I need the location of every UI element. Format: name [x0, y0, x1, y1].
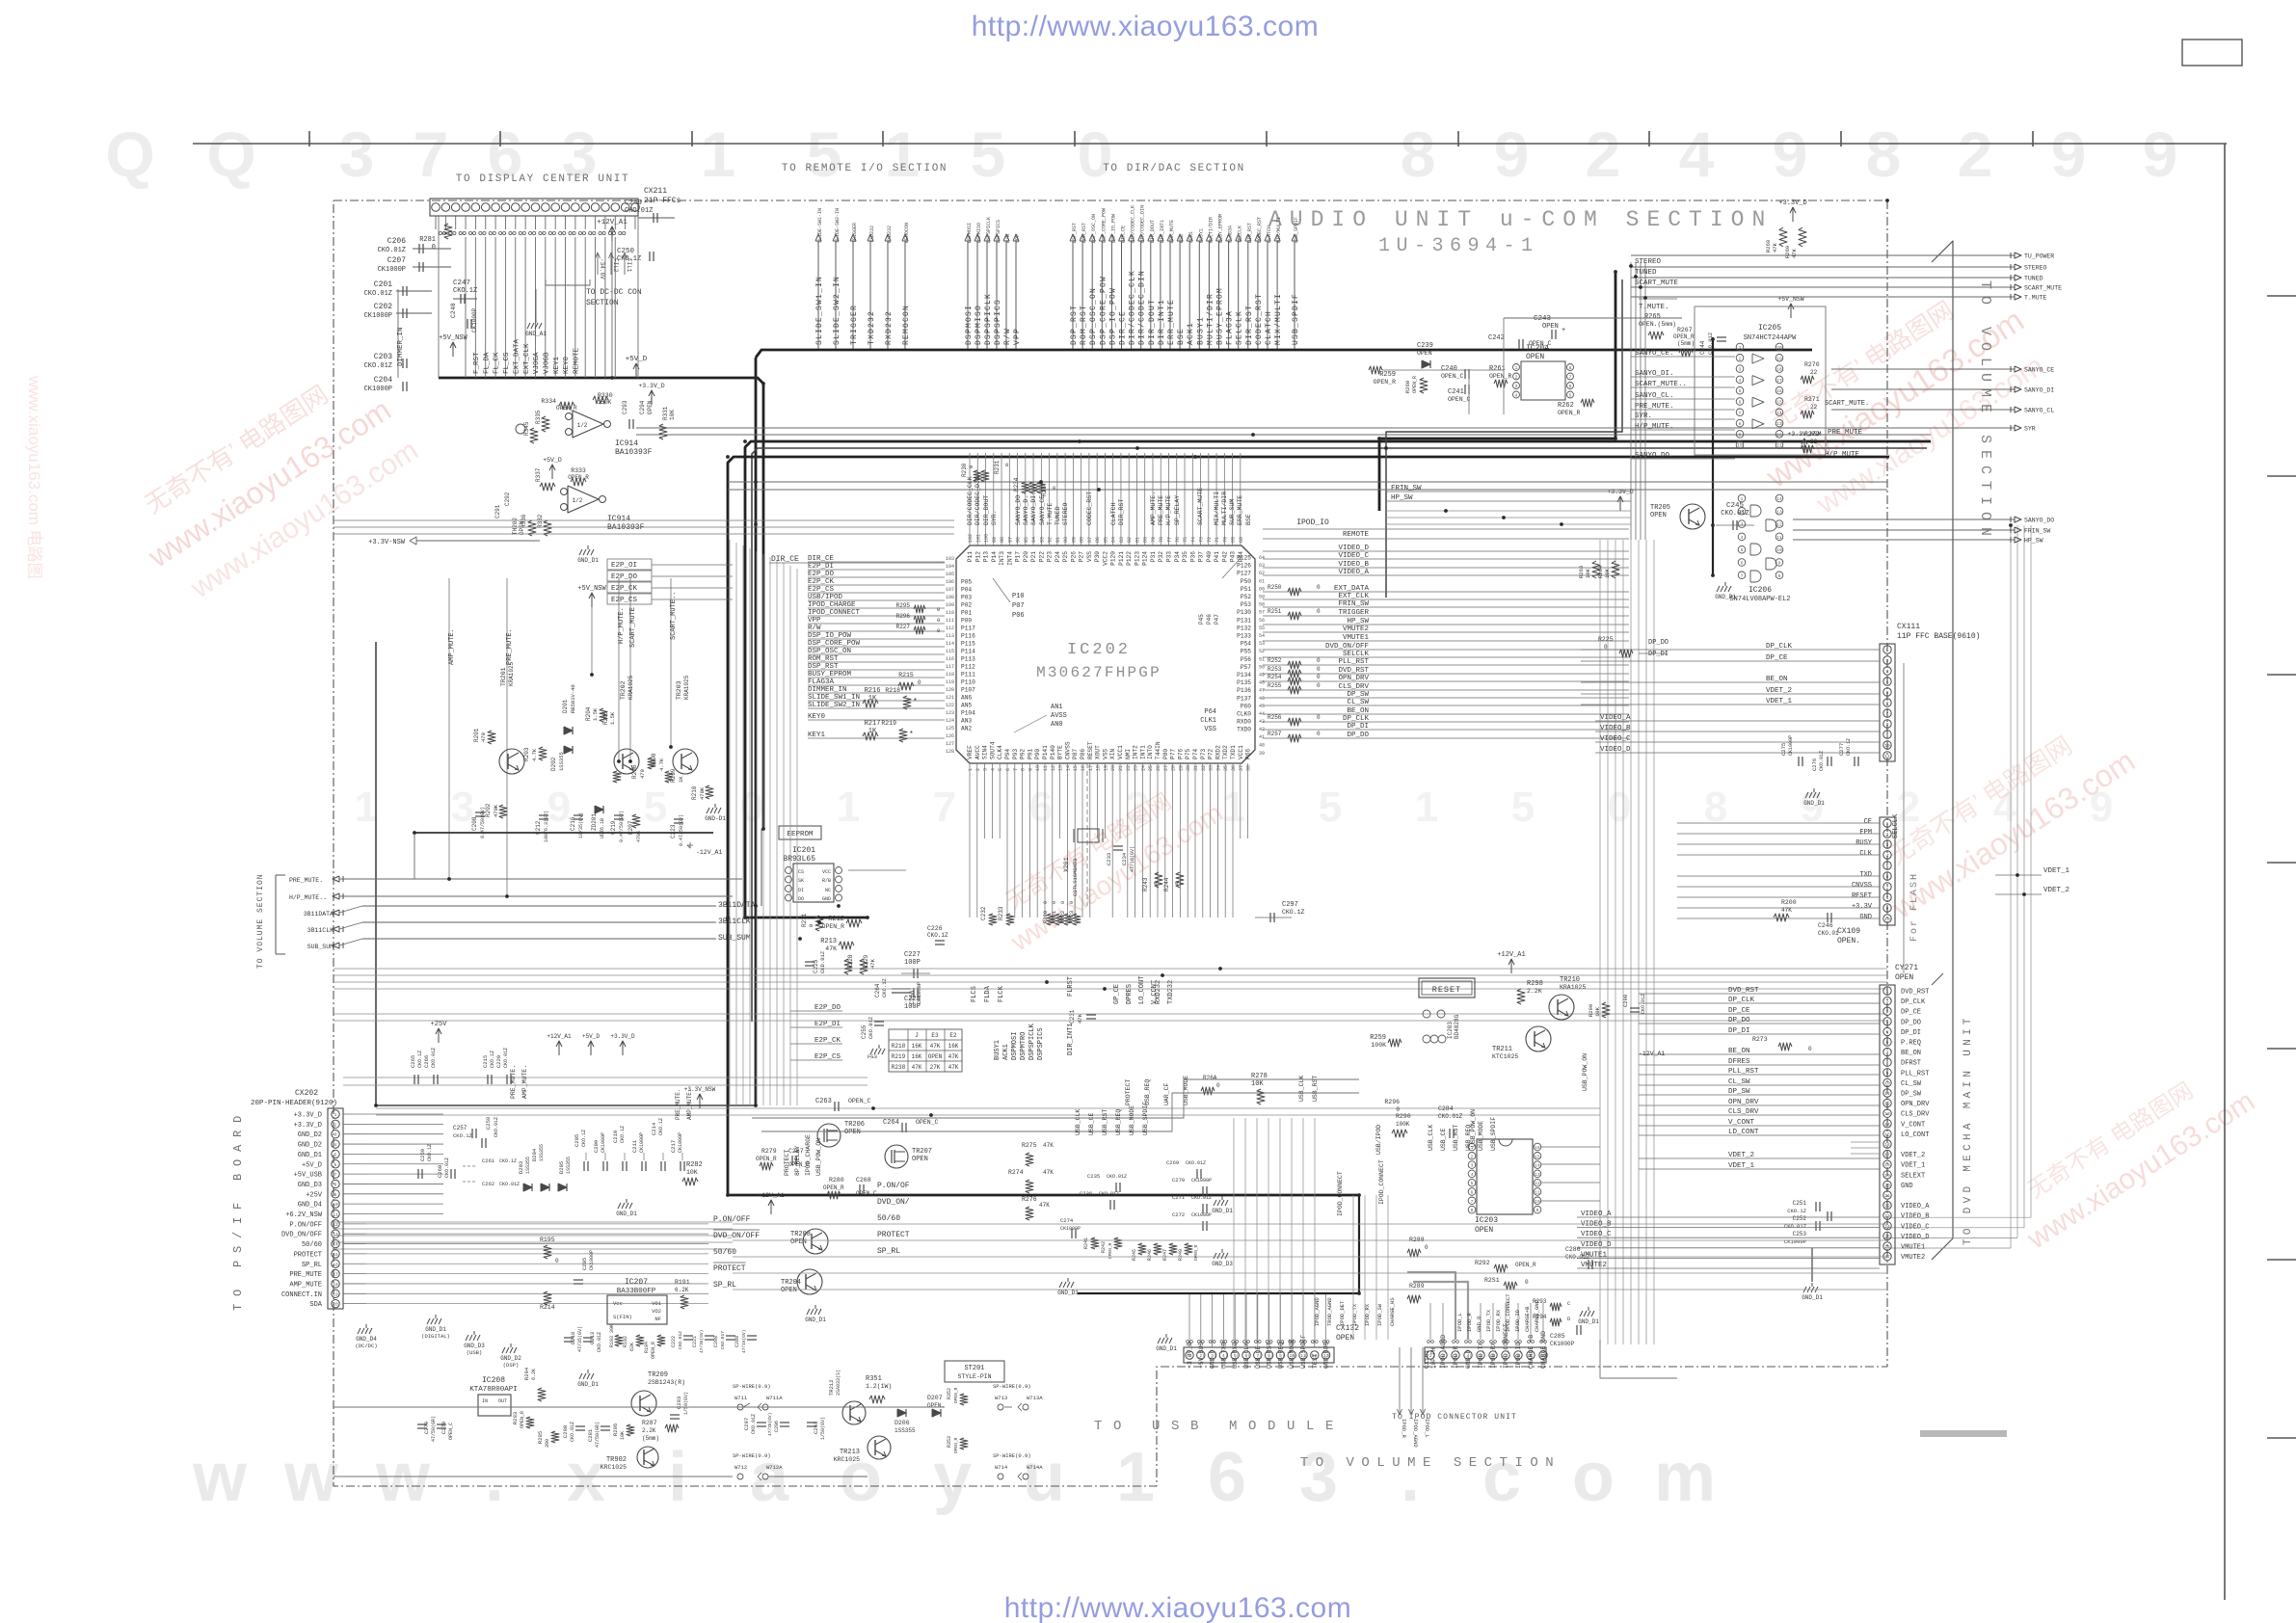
svg-text:www.xiaoyu163.com 电路图: www.xiaoyu163.com 电路图 [25, 375, 43, 579]
svg-text:IPOD_R: IPOD_R [1466, 1312, 1473, 1332]
svg-text:INT4: INT4 [1006, 551, 1013, 566]
svg-text:BA33B00FP: BA33B00FP [617, 1288, 656, 1295]
svg-text:R281: R281 [419, 236, 436, 244]
svg-text:47/16(GV): 47/16(GV) [1130, 846, 1135, 872]
svg-text:VIDEO_C: VIDEO_C [1338, 552, 1369, 560]
svg-text:D: D [1567, 1316, 1571, 1322]
bus thick usb bottom [1078, 1195, 1359, 1293]
left bracket volume [275, 875, 277, 954]
svg-text:R252: R252 [1268, 657, 1282, 664]
svg-text:FRIN_SW: FRIN_SW [1338, 600, 1369, 608]
svg-text:BA10393F: BA10393F [607, 523, 645, 532]
svg-text:OPEN: OPEN [790, 1238, 807, 1246]
svg-text:1SS355: 1SS355 [539, 1144, 545, 1161]
svg-text:CKO.1Z: CKO.1Z [1787, 1208, 1807, 1214]
svg-text:47K: 47K [1772, 242, 1778, 253]
svg-text:C259: C259 [419, 1149, 426, 1161]
bracket to volume section [1932, 241, 1953, 1260]
svg-text:R26A: R26A [1203, 1075, 1217, 1081]
svg-text:2: 2 [1586, 119, 1621, 190]
svg-text:R218: R218 [892, 1043, 906, 1050]
svg-text:+5V_USB: +5V_USB [294, 1172, 322, 1180]
svg-text:E2: E2 [949, 1032, 957, 1039]
svg-text:R195: R195 [540, 1237, 555, 1243]
svg-text:29: 29 [1178, 765, 1184, 771]
svg-text:5: 5 [1886, 1029, 1889, 1035]
svg-text:114: 114 [946, 641, 954, 647]
svg-text:R250: R250 [1268, 584, 1282, 591]
svg-text:18: 18 [1096, 765, 1102, 771]
svg-text:11: 11 [1884, 1091, 1890, 1097]
svg-text:TR213: TR213 [840, 1449, 860, 1456]
svg-text:2.2K: 2.2K [1527, 988, 1542, 995]
svg-text:P32: P32 [1158, 551, 1164, 562]
svg-text:SP_RL: SP_RL [713, 1281, 736, 1290]
bank remote io wires [817, 241, 819, 349]
svg-text:R265: R265 [1644, 313, 1661, 321]
svg-text:SANYO_DI: SANYO_DI [2024, 387, 2054, 394]
svg-text:R259: R259 [1379, 371, 1396, 379]
svg-text:C251: C251 [1793, 1200, 1807, 1207]
svg-text:CKO.01Z: CKO.01Z [494, 1117, 499, 1137]
svg-text:IPOD_TX: IPOD_TX [1478, 1343, 1484, 1369]
svg-text:SYR.: SYR. [991, 510, 998, 525]
svg-text:5: 5 [1319, 784, 1342, 831]
svg-text:47/16(GV): 47/16(GV) [741, 1330, 747, 1353]
svg-text:R294: R294 [523, 1367, 530, 1380]
box around display section [438, 216, 440, 378]
svg-text:C262: C262 [482, 1181, 494, 1187]
svg-text:DO: DO [798, 896, 804, 902]
svg-text:IC206: IC206 [1749, 586, 1772, 595]
svg-text:5: 5 [1739, 388, 1742, 394]
svg-text:6: 6 [1886, 1040, 1889, 1046]
svg-text:DP_DO: DP_DO [1648, 639, 1669, 647]
svg-text:R353: R353 [947, 1436, 952, 1448]
svg-text:VMUTE2: VMUTE2 [1343, 625, 1369, 633]
svg-text:2: 2 [1741, 509, 1744, 515]
svg-text:6: 6 [334, 1162, 337, 1168]
svg-text:USB_TXD: USB_TXD [1220, 1343, 1227, 1369]
svg-text:P13: P13 [983, 551, 990, 562]
svg-text:CKO.01Z: CKO.01Z [503, 1048, 509, 1068]
svg-text:90: 90 [1063, 537, 1069, 543]
svg-text:48: 48 [1259, 680, 1265, 686]
svg-text:CLS_DRV: CLS_DRV [1338, 683, 1369, 691]
svg-text:1/2: 1/2 [573, 497, 583, 504]
svg-text:C240: C240 [1441, 365, 1457, 373]
svg-text:116: 116 [946, 656, 954, 662]
svg-text:OPEN_R: OPEN_R [1558, 410, 1581, 416]
bus verticals right bundle to usb [1599, 540, 1601, 1344]
svg-text:i: i [668, 1439, 687, 1516]
svg-text:DP_SW: DP_SW [1901, 1091, 1922, 1099]
svg-text:RXD0: RXD0 [1237, 719, 1251, 726]
svg-text:OPEN_R: OPEN_R [520, 1411, 525, 1428]
svg-text:W711: W711 [734, 1395, 748, 1401]
svg-text:R337: R337 [535, 467, 542, 482]
svg-text:SP_RL: SP_RL [877, 1247, 900, 1256]
svg-text:24: 24 [1884, 1224, 1890, 1230]
svg-text:VIDEO_D: VIDEO_D [1901, 1234, 1929, 1241]
svg-text:9: 9 [334, 1192, 337, 1198]
svg-text:0: 0 [808, 924, 814, 927]
svg-text:DSP_RST: DSP_RST [1070, 305, 1079, 345]
svg-text:R298: R298 [1527, 980, 1543, 988]
watermark red diagonal cluster right top [1736, 266, 2056, 535]
svg-text:SUB_SUM: SUB_SUM [307, 944, 334, 950]
svg-text:REMOCON: REMOCON [902, 305, 911, 345]
svg-text:C264: C264 [874, 983, 881, 998]
svg-text:13: 13 [1058, 765, 1064, 771]
svg-text:TR205: TR205 [1650, 504, 1670, 512]
svg-text:122: 122 [946, 703, 954, 708]
svg-text:R242: R242 [1101, 1241, 1107, 1253]
svg-text:100P: 100P [904, 959, 921, 967]
svg-text:11: 11 [1776, 535, 1782, 541]
svg-text:P141: P141 [1042, 745, 1049, 759]
svg-text:1.2(1W): 1.2(1W) [866, 1383, 892, 1390]
svg-text:STYLE-PIN: STYLE-PIN [957, 1373, 991, 1380]
svg-text:USB_CLK: USB_CLK [1428, 1125, 1434, 1151]
svg-text:R351: R351 [866, 1375, 882, 1383]
svg-text:17: 17 [1884, 1153, 1890, 1158]
svg-text:P47: P47 [1214, 614, 1220, 625]
svg-text:CKO.1Z: CKO.1Z [1846, 738, 1852, 756]
svg-text:R257: R257 [1268, 731, 1282, 737]
svg-text:R280: R280 [829, 1177, 844, 1184]
svg-text:C274: C274 [1060, 1217, 1074, 1224]
svg-text:R292: R292 [1475, 1260, 1490, 1266]
svg-text:126: 126 [946, 733, 954, 739]
svg-text:DIR_DOUT: DIR_DOUT [1148, 299, 1157, 345]
svg-text:CK1000P: CK1000P [678, 1132, 683, 1153]
svg-text:11P FFC BASE(9610): 11P FFC BASE(9610) [1897, 632, 1980, 641]
svg-text:KRA1025: KRA1025 [508, 661, 515, 686]
svg-text:+5V_BUS: +5V_BUS [1198, 1343, 1205, 1369]
svg-text:DSPMTRO: DSPMTRO [1020, 1032, 1028, 1060]
svg-text:ST201: ST201 [964, 1365, 984, 1372]
svg-text:EEPROM: EEPROM [787, 831, 814, 838]
svg-text:R219: R219 [892, 1053, 906, 1060]
svg-text:10: 10 [1776, 547, 1782, 553]
svg-text:SDA: SDA [309, 1301, 322, 1309]
svg-text:C217: C217 [670, 1140, 677, 1153]
svg-text:+12V_A1: +12V_A1 [758, 1192, 784, 1199]
svg-text:P34: P34 [1174, 551, 1181, 562]
svg-text:P123: P123 [1134, 551, 1140, 566]
svg-text:C258: C258 [485, 1117, 492, 1130]
svg-text:CODEC_RST: CODEC_RST [1257, 217, 1263, 243]
svg-text:VCC2: VCC2 [1102, 551, 1108, 566]
svg-text:0: 0 [1043, 901, 1049, 904]
svg-text:R296: R296 [1384, 1099, 1400, 1105]
svg-text:DVD_ON/OFF: DVD_ON/OFF [1325, 643, 1369, 651]
svg-text:TRIGGER: TRIGGER [1338, 609, 1369, 617]
svg-text:CLATCH: CLATCH [1267, 226, 1272, 243]
svg-text:IPOD_AGND: IPOD_AGND [1440, 1335, 1447, 1369]
svg-text:+3.3V-NSW: +3.3V-NSW [368, 539, 406, 546]
svg-text:104: 104 [946, 564, 954, 570]
svg-text:FRIN_SW: FRIN_SW [2024, 528, 2050, 535]
svg-text:5: 5 [334, 1152, 337, 1157]
svg-text:TO PS/IF BOARD: TO PS/IF BOARD [231, 1108, 245, 1311]
svg-text:R295: R295 [896, 602, 911, 609]
svg-text:DVD_ON/OFF: DVD_ON/OFF [281, 1232, 322, 1239]
svg-text:TO VOLUME SECTION: TO VOLUME SECTION [256, 873, 265, 969]
svg-text:DIR_RST: DIR_RST [1118, 499, 1125, 525]
svg-text:DIR_INT1: DIR_INT1 [1067, 1023, 1075, 1055]
svg-text:OPEN_R: OPEN_R [953, 1387, 959, 1403]
svg-text:3: 3 [334, 1132, 337, 1138]
svg-text:C211: C211 [631, 1139, 638, 1153]
svg-text:4: 4 [334, 1142, 337, 1148]
svg-text:1: 1 [837, 784, 860, 831]
svg-text:DSP_IO_POW: DSP_IO_POW [1108, 287, 1117, 345]
svg-text:C255: C255 [861, 1024, 868, 1039]
power +12V_A1 arrow [611, 227, 613, 241]
svg-text:R202: R202 [485, 803, 492, 817]
svg-text:10K: 10K [1251, 1080, 1264, 1088]
svg-text:R218: R218 [885, 687, 900, 694]
svg-text:1: 1 [1415, 784, 1438, 831]
svg-text:BUSY_EPROM: BUSY_EPROM [1218, 214, 1224, 243]
cx202 long wires lower [366, 1223, 708, 1225]
svg-text:C202: C202 [374, 303, 392, 311]
svg-text:SECTION: SECTION [586, 299, 619, 307]
svg-text:8: 8 [1886, 895, 1889, 901]
svg-text:GND_D2: GND_D2 [500, 1355, 521, 1362]
svg-text:FLAG3A: FLAG3A [1226, 310, 1235, 345]
svg-text:http://www.xiaoyu163.com: http://www.xiaoyu163.com [972, 11, 1320, 42]
svg-text:3: 3 [1886, 842, 1889, 848]
watermark red vertical text left edge [25, 375, 43, 579]
svg-text:IPOD_TX: IPOD_TX [1351, 1303, 1358, 1326]
svg-text:1/2: 1/2 [577, 422, 588, 429]
svg-text:GND_D1: GND_D1 [298, 1152, 322, 1159]
svg-text:106: 106 [946, 579, 954, 585]
svg-text:INT3: INT3 [999, 551, 1005, 566]
svg-text:IC203: IC203 [1447, 1022, 1454, 1039]
svg-text:USB_REQ: USB_REQ [1144, 1079, 1151, 1105]
svg-text:R230: R230 [961, 463, 968, 477]
svg-text:DFRST: DFRST [1901, 1060, 1921, 1068]
svg-text:14: 14 [1065, 765, 1071, 771]
power +3.3V_NSM [1803, 439, 1805, 453]
svg-text:FIL1: FIL1 [626, 258, 632, 273]
svg-text:CE: CE [1864, 818, 1872, 826]
svg-text:64: 64 [1259, 555, 1265, 561]
svg-text:SUB_SUM: SUB_SUM [718, 934, 751, 943]
svg-text:112: 112 [946, 625, 954, 631]
svg-text:47K: 47K [1043, 1169, 1054, 1176]
svg-text:TXD1: TXD1 [1230, 745, 1237, 759]
svg-text:P40: P40 [1206, 551, 1213, 562]
svg-text:w: w [283, 1439, 339, 1516]
svg-text:IPOD_IO: IPOD_IO [1296, 519, 1329, 527]
svg-text:GND_D1: GND_D1 [805, 1317, 826, 1323]
svg-text:+3.3V_D: +3.3V_D [294, 1112, 322, 1120]
svg-text:TO DIR/DAC SECTION: TO DIR/DAC SECTION [1103, 163, 1245, 174]
svg-text:P24: P24 [1055, 551, 1061, 562]
svg-text:T.MUTE: T.MUTE [2024, 295, 2047, 302]
svg-text:C232: C232 [980, 906, 987, 920]
svg-text:-12V_A1: -12V_A1 [696, 849, 722, 856]
svg-text:R249: R249 [1178, 1249, 1184, 1261]
svg-text:P87: P87 [1072, 749, 1079, 759]
svg-text:4: 4 [990, 768, 996, 771]
svg-text:C293: C293 [622, 400, 628, 414]
svg-text:DSPSPICS: DSPSPICS [1037, 1027, 1045, 1060]
svg-text:P133: P133 [1237, 633, 1251, 640]
svg-text:P86: P86 [1080, 749, 1086, 759]
svg-text:5: 5 [807, 119, 842, 190]
watermark red diagonal cluster right bottom [2000, 1052, 2260, 1256]
svg-text:32: 32 [1201, 765, 1207, 771]
svg-text:OPEN_C: OPEN_C [448, 1423, 454, 1440]
svg-text:GND: GND [1859, 914, 1872, 921]
svg-text:+3.3V: +3.3V [1852, 903, 1873, 911]
svg-text:82: 82 [1127, 537, 1133, 543]
svg-text:0: 0 [937, 606, 940, 613]
svg-text:TEST: TEST [1312, 1353, 1319, 1369]
svg-text:IPOD_SW: IPOD_SW [1376, 1303, 1383, 1326]
svg-text:93: 93 [1039, 537, 1045, 543]
svg-text:10K: 10K [669, 410, 676, 420]
svg-text:P42: P42 [1221, 551, 1228, 562]
svg-text:47K: 47K [948, 1064, 959, 1071]
svg-text:OPEN: OPEN [1526, 353, 1544, 361]
svg-text:USB_POW_ON: USB_POW_ON [1582, 1053, 1589, 1091]
svg-text:VCC1: VCC1 [1238, 745, 1244, 759]
svg-text:R282: R282 [686, 1161, 703, 1169]
svg-text:R192: R192 [623, 1336, 628, 1347]
svg-text:P41: P41 [1214, 551, 1220, 562]
svg-text:C284: C284 [1438, 1105, 1454, 1112]
svg-text:P03: P03 [961, 595, 972, 601]
svg-text:FL_DA: FL_DA [483, 352, 491, 374]
svg-text:R290: R290 [1396, 1113, 1411, 1120]
svg-text:P51: P51 [1241, 586, 1251, 593]
svg-text:C203: C203 [374, 353, 392, 361]
svg-text:47/50(GR): 47/50(GR) [595, 1422, 601, 1448]
svg-text:OPEN.: OPEN. [927, 1402, 945, 1409]
svg-text:ZD201: ZD201 [591, 813, 598, 831]
svg-text:CX101: CX101 [1424, 1349, 1430, 1369]
svg-text:ACK1: ACK1 [1188, 231, 1194, 243]
svg-text:VIDEO_C: VIDEO_C [1901, 1223, 1929, 1231]
svg-text:CLK4: CLK4 [997, 745, 1003, 759]
svg-text:FG3: FG3 [868, 1053, 877, 1060]
svg-text:OPEN_C: OPEN_C [916, 1119, 939, 1126]
svg-text:GND_D3: GND_D3 [298, 1182, 322, 1189]
svg-text:VCC: VCC [822, 869, 831, 875]
svg-text:DIR/CODEC_CLK: DIR/CODEC_CLK [1129, 270, 1137, 345]
svg-text:PRE_MUTE: PRE_MUTE [289, 1271, 322, 1279]
svg-text:DVD_ON/: DVD_ON/ [877, 1198, 910, 1207]
svg-text:4: 4 [1471, 1172, 1474, 1178]
svg-text:117: 117 [946, 664, 954, 670]
svg-text:OPEN_R: OPEN_R [1193, 1244, 1199, 1261]
svg-text:TH202: TH202 [512, 518, 519, 535]
svg-text:R279: R279 [761, 1148, 777, 1155]
svg-text:VPP: VPP [1015, 234, 1021, 243]
svg-text:R211: R211 [801, 913, 808, 927]
svg-text:30: 30 [1186, 765, 1191, 771]
svg-text:GND_D1: GND_D1 [1802, 1294, 1823, 1301]
svg-text:13: 13 [1884, 1111, 1890, 1117]
svg-text:TXD232: TXD232 [1167, 980, 1175, 1004]
svg-text:P30: P30 [1094, 551, 1101, 562]
svg-text:R225: R225 [1598, 636, 1614, 643]
svg-text:76: 76 [1175, 537, 1181, 543]
svg-text:103: 103 [946, 556, 954, 562]
svg-text:OPEN_C: OPEN_C [1448, 396, 1471, 403]
svg-text:IPOD_RX: IPOD_RX [1495, 1309, 1502, 1332]
svg-text:AMP_MUTE.: AMP_MUTE. [686, 1089, 693, 1120]
svg-text:P35: P35 [1182, 551, 1188, 562]
power +5V_NSW ic205 [1790, 305, 1792, 318]
svg-text:DSPMISO: DSPMISO [974, 305, 983, 345]
svg-text:R286: R286 [612, 1423, 619, 1436]
wires mute verticals [448, 578, 450, 879]
svg-text:D202: D202 [550, 757, 557, 771]
svg-text:CONNECT.IN: CONNECT.IN [281, 1291, 322, 1299]
svg-text:USB_SPDIF: USB_SPDIF [1292, 293, 1300, 345]
svg-text:P01: P01 [961, 610, 972, 617]
svg-text:22: 22 [1810, 404, 1818, 411]
svg-text:BE_ON: BE_ON [1901, 1050, 1921, 1057]
svg-text:17: 17 [1776, 378, 1782, 384]
svg-text:7: 7 [414, 119, 449, 190]
wire 12v vertical [611, 241, 613, 378]
svg-text:+3.3V_D: +3.3V_D [1607, 489, 1633, 495]
bus horizontal lower group2 [376, 1107, 1600, 1109]
svg-text:4: 4 [1739, 378, 1742, 384]
svg-text:SUR_SUM: SUR_SUM [1229, 499, 1236, 525]
svg-text:R213: R213 [820, 938, 837, 945]
svg-text:+6.2V_NSW: +6.2V_NSW [285, 1211, 323, 1219]
svg-text:P00: P00 [961, 618, 972, 625]
svg-text:P26: P26 [1070, 551, 1077, 562]
svg-text:Vcc: Vcc [613, 1300, 623, 1307]
svg-text:CKO.01Z: CKO.01Z [1565, 1254, 1590, 1261]
svg-text:CX202: CX202 [295, 1089, 318, 1098]
svg-text:GND_D1: GND_D1 [1212, 1208, 1233, 1214]
svg-text:2: 2 [1886, 832, 1889, 838]
connector CX109 For FLASH [1880, 817, 1895, 925]
watermark red diagonal cluster right middle [1861, 706, 2141, 925]
svg-text:1U-3694-1: 1U-3694-1 [1378, 235, 1539, 257]
resistor R281 [444, 224, 452, 239]
svg-text:P126: P126 [1237, 563, 1251, 570]
svg-text:7: 7 [933, 784, 956, 831]
svg-text:m: m [1654, 1439, 1716, 1516]
svg-text:DSP_OSC_ON: DSP_OSC_ON [1089, 287, 1098, 345]
svg-text:GND_D4: GND_D4 [356, 1336, 377, 1343]
svg-text:DP_DI: DP_DI [1648, 651, 1669, 658]
svg-text:KRA1025: KRA1025 [1560, 984, 1586, 991]
svg-text:R238: R238 [892, 1064, 906, 1071]
svg-text:DP_SW: DP_SW [1347, 691, 1369, 699]
svg-text:C207: C207 [387, 256, 406, 265]
svg-text:C250: C250 [617, 248, 635, 255]
svg-text:DSP_CORE_POW: DSP_CORE_POW [1099, 276, 1108, 345]
svg-text:57: 57 [1259, 610, 1265, 616]
svg-text:IPOD_AGND: IPOD_AGND [1412, 1419, 1419, 1448]
svg-text:2: 2 [1886, 999, 1889, 1005]
svg-text:C276: C276 [1811, 758, 1818, 771]
